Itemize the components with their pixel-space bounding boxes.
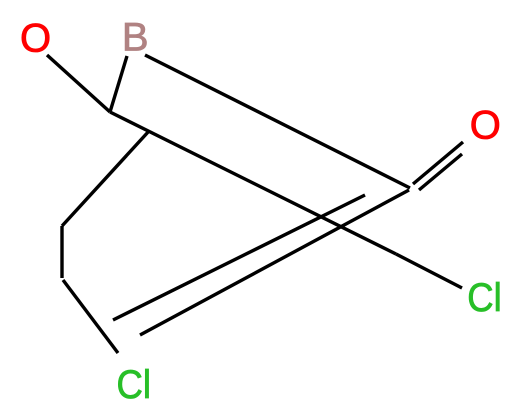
svg-text:Cl: Cl xyxy=(117,363,152,407)
wire to Cl2 xyxy=(63,280,118,353)
wire B-C4 long xyxy=(145,55,410,188)
wire F xyxy=(60,226,63,278)
wire C4=O2 main xyxy=(413,142,463,184)
wire C4=O2 inner xyxy=(419,154,462,190)
wire to Cl1 xyxy=(396,254,462,288)
wire P1 xyxy=(113,195,365,320)
wire O1-V1 xyxy=(47,55,110,112)
wire V1-V4 long xyxy=(110,112,396,254)
svg-text:O: O xyxy=(470,103,501,147)
wire B-V1 xyxy=(110,56,127,112)
svg-text:B: B xyxy=(122,16,149,60)
svg-text:O: O xyxy=(20,17,51,61)
svg-text:Cl: Cl xyxy=(467,276,502,320)
wire P2 xyxy=(140,190,409,335)
wire E xyxy=(62,131,149,226)
